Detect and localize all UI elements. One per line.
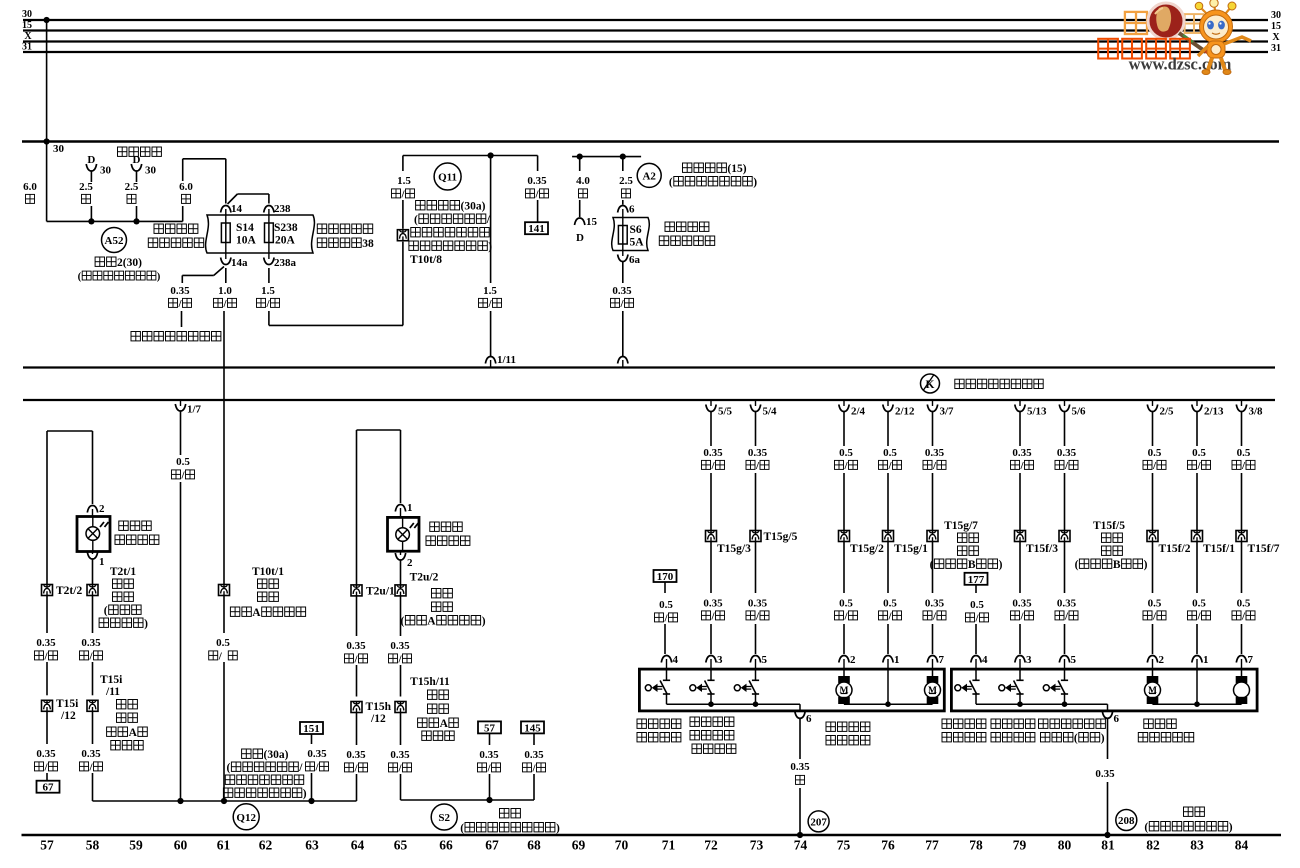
- svg-text:(: (: [227, 762, 231, 774]
- svg-text:5/4: 5/4: [763, 406, 778, 418]
- wire: [975, 624, 977, 654]
- connector 1/11 at ECU: [485, 357, 495, 364]
- fuse bracket: [206, 215, 315, 253]
- svg-text:): ): [303, 788, 307, 800]
- left lamp caption: [119, 521, 128, 531]
- svg-text:74: 74: [794, 838, 808, 853]
- svg-text:38: 38: [362, 238, 374, 250]
- svg-text:0.5: 0.5: [1192, 598, 1206, 610]
- S2 caption: [500, 809, 510, 819]
- junction: [1104, 832, 1110, 838]
- svg-text:3: 3: [717, 654, 723, 666]
- S6 caption: [665, 222, 675, 232]
- wire: [1064, 542, 1066, 594]
- current track baseline: [22, 834, 1282, 837]
- svg-text:58: 58: [86, 838, 100, 853]
- svg-text:): ): [556, 823, 560, 835]
- svg-text:T15g/1: T15g/1: [894, 543, 928, 555]
- Q11 caption: [416, 201, 425, 211]
- svg-text:4.0: 4.0: [576, 175, 590, 187]
- connector T15f/2: [1147, 531, 1158, 542]
- junction on rail 30: [44, 17, 50, 23]
- connector 14 top: [221, 206, 231, 213]
- connector 6a: [622, 251, 624, 257]
- wire: [843, 473, 845, 531]
- junction 1/7: [177, 798, 183, 804]
- wire: [92, 711, 94, 744]
- wire: [489, 774, 491, 800]
- wire: [932, 542, 934, 594]
- box 141: [525, 222, 548, 234]
- svg-text:59: 59: [129, 838, 143, 853]
- door contact switch: [755, 669, 757, 680]
- svg-text:68: 68: [527, 838, 541, 853]
- svg-text:1: 1: [407, 502, 413, 514]
- logo text weiku yixia: [1098, 39, 1118, 59]
- svg-text:2.5: 2.5: [125, 181, 139, 193]
- left door warning lamp W6: [77, 517, 110, 552]
- wire: [1152, 624, 1154, 654]
- svg-text:2/5: 2/5: [1160, 406, 1175, 418]
- svg-text:1/11: 1/11: [497, 354, 516, 366]
- wire: [46, 711, 48, 744]
- wire: [1019, 624, 1021, 654]
- svg-text:S2: S2: [438, 812, 450, 824]
- lock motor: [843, 669, 845, 676]
- wire: [400, 665, 402, 697]
- wire: [1152, 473, 1154, 531]
- connector T15f/7: [1236, 531, 1247, 542]
- junction: [797, 832, 803, 838]
- A2 caption: [683, 163, 692, 173]
- svg-text:4: 4: [673, 654, 679, 666]
- svg-text:1.0: 1.0: [218, 285, 232, 297]
- svg-text:0.35: 0.35: [36, 748, 56, 760]
- svg-text:0.5: 0.5: [659, 599, 673, 611]
- wire: [843, 624, 845, 654]
- wire: [887, 473, 889, 531]
- junction: [1194, 701, 1200, 707]
- connector T15i/11: [87, 700, 98, 711]
- svg-text:6a: 6a: [629, 254, 641, 266]
- svg-text:(30a): (30a): [461, 201, 486, 213]
- magnifier handle: [1179, 33, 1206, 52]
- svg-text:2/4: 2/4: [851, 406, 866, 418]
- wire: [311, 773, 313, 801]
- svg-text:57: 57: [40, 838, 54, 853]
- svg-text:63: 63: [305, 838, 319, 853]
- svg-text:T10t/8: T10t/8: [410, 254, 442, 266]
- door unit box: [951, 669, 1257, 711]
- svg-text:A: A: [129, 727, 138, 739]
- fuse bracket caption right: [317, 224, 326, 234]
- bus rail X: [23, 40, 1268, 42]
- wire 57: [489, 733, 491, 745]
- junction: [753, 701, 759, 707]
- svg-text:1: 1: [1203, 654, 1209, 666]
- wire: [755, 473, 757, 531]
- svg-text:B: B: [1113, 559, 1121, 571]
- svg-text:X: X: [1272, 32, 1280, 43]
- wire 0.35 black/blue: [622, 262, 624, 284]
- svg-text:0.5: 0.5: [1148, 447, 1162, 459]
- svg-text:0.35: 0.35: [748, 447, 768, 459]
- connector T15g/5: [750, 531, 761, 542]
- fuse S14 10A: [225, 215, 227, 223]
- svg-text:238a: 238a: [274, 257, 297, 269]
- wire lamp1 down: [92, 596, 94, 634]
- svg-text:T15i: T15i: [100, 674, 123, 686]
- wire 1/7 from ECU: [175, 404, 185, 411]
- svg-text:65: 65: [394, 838, 408, 853]
- lock motor: [1241, 669, 1243, 676]
- svg-text:T2u/2: T2u/2: [410, 572, 439, 584]
- connector T10t/1: [219, 585, 230, 596]
- connector T15g/1: [883, 531, 894, 542]
- svg-text:2(30): 2(30): [117, 257, 142, 269]
- svg-text:15: 15: [586, 216, 598, 228]
- connector 14a: [225, 253, 227, 259]
- svg-text:T15h/11: T15h/11: [410, 676, 450, 688]
- svg-text:75: 75: [837, 838, 851, 853]
- svg-text:2/13: 2/13: [1204, 406, 1224, 418]
- box 170: [654, 570, 677, 582]
- svg-text:(: (: [78, 271, 82, 283]
- svg-text:6.0: 6.0: [179, 181, 193, 193]
- svg-text:T15g/2: T15g/2: [850, 543, 884, 555]
- jog 14a to memory unit wire: [214, 267, 224, 276]
- svg-text:0.35: 0.35: [479, 749, 499, 761]
- wire: [710, 542, 712, 594]
- svg-text:7: 7: [1248, 654, 1254, 666]
- wire T10t down: [223, 596, 225, 634]
- bus rail 30: [23, 19, 1268, 21]
- junction: [620, 154, 626, 160]
- svg-text:82: 82: [1146, 838, 1160, 853]
- svg-text:0.35: 0.35: [527, 175, 547, 187]
- right lamp caption: [430, 522, 439, 532]
- svg-text:5/13: 5/13: [1027, 406, 1047, 418]
- svg-text:1.5: 1.5: [261, 285, 275, 297]
- box 145: [521, 721, 544, 733]
- ECU output 5/13: [1019, 401, 1021, 406]
- connection point Q12: [233, 804, 259, 830]
- fuse bracket caption left: [154, 224, 164, 234]
- wire up to fuse 14: [182, 159, 184, 181]
- connector T2t/1: [87, 585, 98, 596]
- wire: [1241, 542, 1243, 594]
- pin connector 3: [1015, 656, 1025, 663]
- svg-text:67: 67: [485, 838, 499, 853]
- junction: [88, 218, 94, 224]
- svg-text:0.35: 0.35: [1095, 768, 1115, 780]
- pin connector 4: [661, 656, 671, 663]
- svg-text:(15): (15): [727, 163, 746, 175]
- svg-text:60: 60: [174, 838, 188, 853]
- svg-text:(: (: [1074, 733, 1078, 745]
- door unit box: [639, 669, 944, 711]
- svg-text:): ): [144, 618, 148, 630]
- svg-text:0.35: 0.35: [925, 447, 945, 459]
- svg-text:T15f/3: T15f/3: [1026, 543, 1058, 555]
- wire: [755, 624, 757, 654]
- connector T2u/1: [351, 585, 362, 596]
- ECU output 2/13: [1196, 401, 1198, 406]
- svg-text:15: 15: [22, 20, 32, 31]
- wire: [1196, 542, 1198, 594]
- svg-text:0.35: 0.35: [1012, 598, 1032, 610]
- svg-text:30: 30: [100, 165, 112, 177]
- wire: [1241, 473, 1243, 531]
- svg-text:6: 6: [1114, 713, 1120, 725]
- svg-text:0.5: 0.5: [216, 637, 230, 649]
- svg-text:71: 71: [662, 838, 676, 853]
- pin connector 2: [1147, 656, 1157, 663]
- motor center wire: [887, 669, 889, 704]
- svg-text:T15g/3: T15g/3: [717, 543, 751, 555]
- wire continues down: [223, 311, 225, 585]
- svg-text:): ): [999, 559, 1003, 571]
- svg-text:0.35: 0.35: [1057, 447, 1077, 459]
- svg-text:T15g/7: T15g/7: [944, 520, 978, 532]
- wire to fuse S6: [622, 157, 624, 171]
- svg-text:3/8: 3/8: [1249, 406, 1264, 418]
- svg-text:0.5: 0.5: [176, 456, 190, 468]
- wire: [533, 774, 535, 800]
- bus rail 15: [23, 29, 1268, 31]
- svg-text:5A: 5A: [630, 237, 645, 249]
- ECU output 3/8: [1241, 401, 1243, 406]
- svg-text:): ): [1101, 733, 1105, 745]
- svg-text:): ): [482, 616, 486, 628]
- svg-text:57: 57: [484, 722, 496, 734]
- terminal 15/D: [575, 218, 585, 225]
- svg-text:73: 73: [750, 838, 764, 853]
- fuse S238 20A: [268, 215, 270, 223]
- connection bus to fuses: [47, 220, 183, 222]
- svg-text:238: 238: [274, 203, 291, 215]
- junction T10t: [221, 798, 227, 804]
- right lamp top bar: [357, 429, 401, 431]
- svg-text:M: M: [1148, 686, 1157, 696]
- connector T2u/2: [395, 585, 406, 596]
- svg-text:30: 30: [1271, 10, 1281, 21]
- svg-text:70: 70: [615, 838, 629, 853]
- wire: [755, 542, 757, 594]
- svg-text:0.35: 0.35: [36, 637, 56, 649]
- pin connector 3: [706, 656, 716, 663]
- wire 177: [975, 585, 977, 593]
- connector T15g/2: [839, 531, 850, 542]
- ECU bottom edge: [23, 399, 1275, 401]
- lock motor: [932, 669, 934, 676]
- left unit captions: [637, 719, 647, 729]
- svg-text:): ): [1144, 559, 1148, 571]
- svg-text:A: A: [427, 616, 436, 628]
- wire to box 141: [537, 156, 539, 172]
- svg-text:3: 3: [1026, 654, 1032, 666]
- svg-text:6.0: 6.0: [23, 181, 37, 193]
- wire: [1241, 624, 1243, 654]
- pin connector 7: [927, 656, 937, 663]
- pin connector 2: [839, 656, 849, 663]
- svg-text:0.35: 0.35: [81, 637, 101, 649]
- svg-text:15: 15: [1271, 21, 1281, 32]
- svg-text:2: 2: [850, 654, 856, 666]
- svg-text:T15g/5: T15g/5: [764, 531, 798, 543]
- svg-text:62: 62: [259, 838, 273, 853]
- connector 6: [618, 206, 628, 213]
- wire: [400, 713, 402, 746]
- svg-text:0.35: 0.35: [524, 749, 544, 761]
- connector 238a: [268, 253, 270, 259]
- connector T15f/1: [1192, 531, 1203, 542]
- svg-text:0.35: 0.35: [346, 640, 366, 652]
- svg-text:A: A: [252, 607, 261, 619]
- connection point Q11: [434, 163, 461, 190]
- svg-text:151: 151: [303, 723, 320, 735]
- ECU output 5/6: [1064, 401, 1066, 406]
- horizontal node line A: [22, 140, 1279, 142]
- svg-text:170: 170: [657, 571, 674, 583]
- svg-text:X: X: [24, 31, 32, 42]
- door contact switch: [975, 669, 977, 680]
- svg-text:0.35: 0.35: [170, 285, 190, 297]
- svg-text:1: 1: [99, 556, 105, 568]
- svg-text:177: 177: [968, 574, 985, 586]
- A2 node bar: [572, 156, 641, 158]
- svg-text:66: 66: [439, 838, 453, 853]
- wire: [887, 624, 889, 654]
- wire from rail 30 down to node line: [46, 20, 48, 142]
- ECU caption: [955, 379, 964, 388]
- wire: [356, 665, 358, 697]
- A52 caption: [95, 257, 104, 267]
- svg-text:M: M: [928, 686, 937, 696]
- svg-text:83: 83: [1190, 838, 1204, 853]
- wire 1.5 red/blue from 238a: [268, 268, 270, 283]
- svg-text:D: D: [576, 232, 584, 244]
- wire: [356, 713, 358, 746]
- svg-text:2: 2: [407, 557, 413, 569]
- svg-text:S238: S238: [274, 222, 298, 234]
- svg-text:0.5: 0.5: [970, 599, 984, 611]
- motor bus: [1153, 703, 1242, 705]
- connector T2t/2: [42, 585, 53, 596]
- wire to T10t/8: [402, 156, 404, 172]
- svg-text:D: D: [133, 154, 141, 166]
- svg-text:(: (: [1144, 822, 1148, 834]
- bus rail 31: [23, 51, 1268, 53]
- switch common bus: [667, 703, 801, 705]
- connector T15i/12: [42, 700, 53, 711]
- svg-text:/11: /11: [105, 686, 120, 698]
- svg-text:Q11: Q11: [438, 172, 457, 184]
- box 177: [965, 573, 988, 585]
- connector 2: [92, 431, 94, 504]
- svg-text:61: 61: [217, 838, 231, 853]
- svg-text:14a: 14a: [231, 257, 248, 269]
- svg-text:6: 6: [806, 713, 812, 725]
- memory unit stub wire: [181, 311, 183, 327]
- wire: [46, 596, 48, 634]
- right door warning lamp: [388, 517, 420, 551]
- wire: [1019, 473, 1021, 531]
- svg-text:79: 79: [1013, 838, 1027, 853]
- exit connector 6: [795, 711, 805, 718]
- wire to Q12 bus: [92, 773, 94, 801]
- svg-text:0.35: 0.35: [1057, 598, 1077, 610]
- svg-text:0.35: 0.35: [1012, 447, 1032, 459]
- junction: [885, 701, 891, 707]
- ECU output 2/5: [1152, 401, 1154, 406]
- svg-text:T10t/1: T10t/1: [252, 566, 284, 578]
- door contact switch: [1019, 669, 1021, 680]
- ECU output 5/4: [755, 401, 757, 406]
- pin connector 7: [1236, 656, 1246, 663]
- wire to S2 bus: [400, 774, 402, 800]
- wire: [1064, 473, 1066, 531]
- svg-text:D: D: [87, 154, 95, 166]
- svg-text:M: M: [840, 686, 849, 696]
- connector 238 top: [264, 206, 274, 213]
- svg-text:2.5: 2.5: [619, 175, 633, 187]
- exit connector 6: [1102, 711, 1112, 718]
- wire 30 feed: [46, 142, 48, 222]
- ECU top edge: [23, 366, 1275, 368]
- junction at node line: [44, 138, 50, 144]
- memory unit caption: [131, 332, 141, 342]
- svg-text:(: (: [414, 214, 418, 226]
- svg-text:31: 31: [1271, 43, 1281, 54]
- svg-text:2: 2: [99, 503, 105, 515]
- ECU output 2/4: [843, 401, 845, 406]
- ECU output 2/12: [887, 401, 889, 406]
- door contact switch: [1064, 669, 1066, 680]
- svg-text:0.35: 0.35: [390, 640, 410, 652]
- lock motor: [1152, 669, 1154, 676]
- junction Q11: [488, 152, 494, 158]
- wire 1.0 red/blue from 14a: [225, 268, 227, 283]
- wire: [932, 624, 934, 654]
- svg-text:T15f/2: T15f/2: [1159, 543, 1191, 555]
- svg-text:0.35: 0.35: [703, 447, 723, 459]
- svg-text:30: 30: [53, 143, 65, 155]
- left lamp top bar: [47, 430, 93, 432]
- svg-text:7: 7: [939, 654, 945, 666]
- S2 bus: [401, 799, 535, 801]
- svg-text:(: (: [460, 823, 464, 835]
- svg-text:(: (: [104, 605, 108, 617]
- svg-text:Q12: Q12: [236, 812, 256, 824]
- junction 57: [486, 797, 492, 803]
- svg-text:30: 30: [22, 9, 32, 20]
- svg-text:(: (: [1075, 559, 1079, 571]
- svg-text:0.5: 0.5: [883, 447, 897, 459]
- ground point 208: [1116, 810, 1137, 831]
- wire: [1196, 624, 1198, 654]
- connector at ECU: [618, 357, 628, 364]
- svg-text:1.5: 1.5: [483, 285, 497, 297]
- right unit captions: [942, 719, 952, 729]
- ECU symbol K: [921, 374, 940, 393]
- svg-text:0.5: 0.5: [839, 447, 853, 459]
- wire 170: [664, 582, 666, 593]
- svg-text:4: 4: [982, 654, 988, 666]
- wire 1.5 red/blue to ECU: [490, 156, 492, 284]
- wire: [46, 662, 48, 695]
- svg-text:141: 141: [528, 223, 545, 235]
